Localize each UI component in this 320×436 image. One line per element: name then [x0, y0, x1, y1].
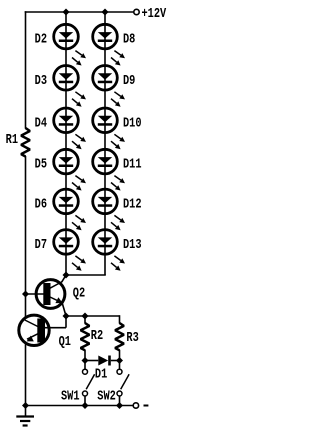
wire left rail upper segment: [25, 11, 27, 128]
label D11: [123, 156, 142, 172]
label D10: [123, 115, 142, 131]
node R3-D1-SW2: [116, 357, 123, 364]
LED D11: [93, 149, 125, 190]
label D1: [95, 366, 107, 382]
svg-text:D5: D5: [35, 156, 47, 172]
wire D1 node to SW1: [84, 361, 86, 370]
LED D7: [54, 230, 86, 271]
node ground junction: [22, 402, 29, 409]
node junction top-right LED column: [102, 9, 109, 16]
svg-text:D6: D6: [35, 196, 47, 212]
label Q1: [59, 334, 71, 350]
svg-text:D12: D12: [123, 196, 142, 212]
label D9: [123, 72, 135, 88]
node Q2 emitter junction: [63, 313, 70, 320]
wire left rail lower segment: [25, 344, 27, 405]
resistor R2: [81, 323, 90, 350]
svg-text:D8: D8: [123, 31, 135, 47]
svg-text:Q1: Q1: [59, 334, 71, 350]
wire D1 node to SW2: [119, 361, 121, 370]
circuit schematic: 12-LED two-transistor flasher: [0, 0, 177, 436]
LED D12: [93, 189, 125, 230]
node LED columns to Q2 collector: [63, 272, 70, 279]
node R2-D1-SW1: [82, 357, 89, 364]
terminal +12V: [134, 9, 139, 14]
LED D3: [54, 66, 86, 107]
resistor R1: [21, 128, 30, 157]
label R1: [6, 132, 18, 148]
wire left rail mid segment: [25, 156, 27, 317]
svg-text:D11: D11: [123, 156, 142, 172]
terminal negative: [133, 403, 138, 408]
wire R3 bottom lead: [119, 350, 121, 361]
wire +12V top rail: [25, 11, 134, 13]
LED D8: [93, 24, 125, 65]
label D4: [35, 115, 47, 131]
label D7: [35, 237, 47, 253]
wire left LED column: [65, 12, 67, 275]
label D5: [35, 156, 47, 172]
svg-text:SW1: SW1: [61, 388, 80, 404]
label D13: [123, 237, 142, 253]
node junction top-left LED column: [63, 9, 70, 16]
LED D2: [54, 24, 86, 65]
label D12: [123, 196, 142, 212]
node SW1 bottom junction: [82, 402, 89, 409]
diode D1: [85, 356, 120, 366]
svg-text:D3: D3: [35, 72, 47, 88]
wire bottom rail: [26, 405, 134, 407]
wire R2 top lead: [84, 316, 86, 324]
svg-text:D1: D1: [95, 366, 107, 382]
switch SW1: [83, 369, 95, 396]
svg-text:SW2: SW2: [97, 388, 116, 404]
svg-text:R1: R1: [6, 132, 18, 148]
wire LED columns join: [66, 274, 106, 276]
svg-text:D13: D13: [123, 237, 142, 253]
svg-text:R3: R3: [126, 330, 138, 346]
wire SW1 to bottom rail: [84, 396, 86, 406]
label R3: [126, 330, 138, 346]
svg-text:+12V: +12V: [142, 6, 167, 22]
LED D6: [54, 189, 86, 230]
svg-text:D9: D9: [123, 72, 135, 88]
svg-text:Q2: Q2: [73, 285, 85, 301]
label minus: [144, 405, 149, 407]
LED D9: [93, 66, 125, 107]
wire R2 bottom lead: [84, 350, 86, 361]
wire SW2 to bottom rail: [119, 396, 121, 406]
switch SW2: [117, 369, 129, 396]
wire R3 top lead: [119, 315, 121, 323]
label D8: [123, 31, 135, 47]
label D6: [35, 196, 47, 212]
svg-text:D10: D10: [123, 115, 142, 131]
label D2: [35, 31, 47, 47]
node SW2 bottom junction: [116, 402, 123, 409]
svg-text:R2: R2: [91, 328, 103, 344]
label SW2: [97, 388, 116, 404]
svg-text:D4: D4: [35, 115, 47, 131]
LED D13: [93, 230, 125, 271]
label R2: [91, 328, 103, 344]
label +12V: [142, 6, 167, 22]
svg-text:D2: D2: [35, 31, 47, 47]
wire emitter node to R3 top: [66, 315, 120, 317]
ground: [16, 406, 34, 426]
resistor R3: [115, 323, 124, 350]
label D3: [35, 72, 47, 88]
label SW1: [61, 388, 80, 404]
node Q2 base on rail: [22, 291, 29, 298]
node R2 top: [82, 313, 89, 320]
transistor Q1: [19, 315, 66, 345]
LED D5: [54, 149, 86, 190]
transistor Q2: [26, 275, 67, 316]
wire right LED column: [104, 12, 106, 275]
LED D4: [54, 108, 86, 149]
LED D10: [93, 108, 125, 149]
label Q2: [73, 285, 85, 301]
svg-text:D7: D7: [35, 237, 47, 253]
